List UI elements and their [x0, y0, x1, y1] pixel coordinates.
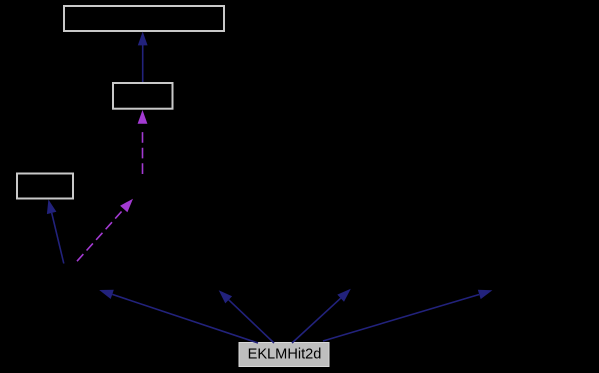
inheritance arrow: EKLMHit2d -> invisible node A (far left) [99, 290, 258, 343]
node EKLMHit2d (current node, grey fill) [239, 343, 329, 367]
usage arrow (dashed): invisible node A -> invisible node B [75, 199, 133, 264]
svg-text:EKLMHit2d: EKLMHit2d [248, 347, 322, 363]
inheritance arrow: middle box -> top box [138, 32, 148, 82]
node: left member-class box (label transparent) [17, 174, 73, 199]
usage arrow (dashed): invisible node B -> middle box [138, 110, 148, 174]
node: middle base-class box (label transparent) [113, 83, 173, 109]
inheritance arrow: EKLMHit2d -> invisible node (center-right) [292, 289, 351, 343]
node: top base-class box (label transparent) [64, 6, 224, 31]
inheritance arrow: EKLMHit2d -> invisible node (far right) [323, 290, 492, 341]
inheritance arrow: EKLMHit2d -> invisible node (center-left) [219, 290, 274, 343]
inheritance arrow: invisible node A -> left box [47, 200, 64, 264]
